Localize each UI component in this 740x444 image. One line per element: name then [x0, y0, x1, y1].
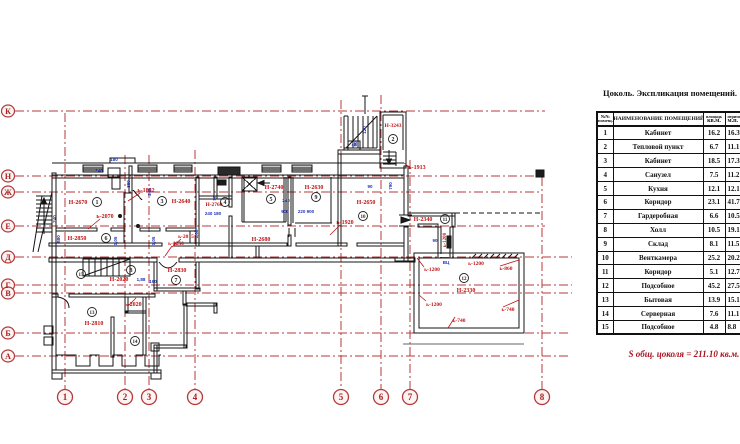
- svg-text:ь-740: ь-740: [453, 318, 466, 324]
- svg-text:190: 190: [149, 279, 157, 284]
- svg-text:8: 8: [130, 268, 133, 274]
- svg-text:180: 180: [110, 157, 118, 162]
- svg-text:ь-1200: ь-1200: [468, 261, 484, 267]
- svg-text:240: 240: [52, 215, 57, 223]
- svg-text:1,88: 1,88: [137, 277, 146, 282]
- svg-text:240: 240: [147, 188, 152, 196]
- svg-text:790: 790: [388, 182, 393, 190]
- svg-text:ь-2020: ь-2020: [124, 302, 141, 308]
- svg-text:12: 12: [462, 277, 468, 282]
- svg-text:220 900: 220 900: [298, 209, 315, 214]
- svg-text:90: 90: [212, 195, 217, 201]
- svg-text:900: 900: [281, 209, 289, 214]
- svg-text:1,05: 1,05: [151, 236, 156, 245]
- svg-text:ь-860: ь-860: [500, 266, 513, 272]
- svg-text:Н-2740: Н-2740: [265, 185, 284, 191]
- svg-text:5: 5: [339, 392, 344, 402]
- svg-text:Б: Б: [5, 329, 10, 338]
- svg-text:1: 1: [63, 392, 68, 402]
- svg-text:В: В: [5, 289, 11, 298]
- svg-text:1,08: 1,08: [194, 229, 199, 238]
- svg-text:Н-2630: Н-2630: [305, 185, 324, 191]
- svg-text:14: 14: [133, 340, 139, 345]
- svg-text:ь-2070: ь-2070: [96, 214, 113, 220]
- svg-text:Н-2650: Н-2650: [357, 200, 376, 206]
- svg-text:ь-740: ь-740: [502, 307, 515, 313]
- svg-text:90: 90: [353, 141, 358, 147]
- svg-text:4: 4: [224, 200, 227, 206]
- svg-text:ь-1250: ь-1250: [168, 241, 184, 247]
- svg-text:8: 8: [540, 392, 545, 402]
- svg-text:Н-2850: Н-2850: [68, 236, 87, 242]
- svg-text:240: 240: [95, 168, 103, 173]
- svg-text:880: 880: [56, 235, 61, 243]
- svg-text:ВЦ: ВЦ: [443, 260, 450, 265]
- svg-text:Н-2330: Н-2330: [457, 288, 476, 294]
- svg-text:Н-2640: Н-2640: [172, 199, 191, 205]
- svg-text:ь-1200: ь-1200: [426, 302, 442, 308]
- svg-text:Н-3243: Н-3243: [384, 123, 401, 129]
- svg-text:К: К: [5, 107, 11, 116]
- svg-text:120: 120: [362, 126, 367, 134]
- svg-text:Н-2670: Н-2670: [69, 200, 88, 206]
- svg-text:90: 90: [367, 184, 373, 189]
- svg-text:Н-2830: Н-2830: [168, 268, 187, 274]
- svg-text:11: 11: [443, 218, 448, 223]
- svg-text:240 180: 240 180: [205, 211, 222, 216]
- svg-text:6: 6: [105, 236, 108, 242]
- svg-text:Н-2810: Н-2810: [85, 321, 104, 327]
- svg-text:1: 1: [96, 200, 99, 206]
- svg-text:3: 3: [161, 199, 164, 205]
- svg-text:15: 15: [79, 273, 85, 278]
- svg-text:90: 90: [432, 238, 438, 243]
- svg-text:9: 9: [315, 195, 318, 201]
- svg-text:3: 3: [147, 392, 152, 402]
- svg-text:ь-1913: ь-1913: [408, 165, 425, 171]
- svg-text:880: 880: [126, 180, 131, 188]
- svg-text:ь-1200: ь-1200: [443, 232, 448, 247]
- svg-text:А: А: [5, 352, 11, 361]
- svg-text:2: 2: [123, 392, 128, 402]
- svg-text:Н-2680: Н-2680: [252, 237, 271, 243]
- svg-text:1,05: 1,05: [113, 236, 118, 245]
- svg-text:Н-2340: Н-2340: [414, 217, 433, 223]
- svg-text:Д: Д: [5, 253, 11, 262]
- svg-text:ь-1920: ь-1920: [336, 220, 353, 226]
- svg-text:ь-1200: ь-1200: [424, 267, 440, 273]
- svg-text:5: 5: [270, 197, 273, 203]
- svg-text:4: 4: [193, 392, 198, 402]
- svg-text:2: 2: [392, 137, 395, 143]
- svg-text:7: 7: [175, 278, 178, 284]
- svg-text:Ж: Ж: [4, 188, 12, 197]
- svg-text:Н-2020: Н-2020: [110, 277, 129, 283]
- svg-text:240: 240: [282, 198, 290, 203]
- svg-text:7: 7: [408, 392, 413, 402]
- svg-text:Е: Е: [5, 222, 10, 231]
- svg-text:10: 10: [361, 215, 367, 220]
- svg-text:6: 6: [379, 392, 384, 402]
- svg-text:Н: Н: [5, 172, 12, 181]
- svg-text:13: 13: [90, 311, 96, 316]
